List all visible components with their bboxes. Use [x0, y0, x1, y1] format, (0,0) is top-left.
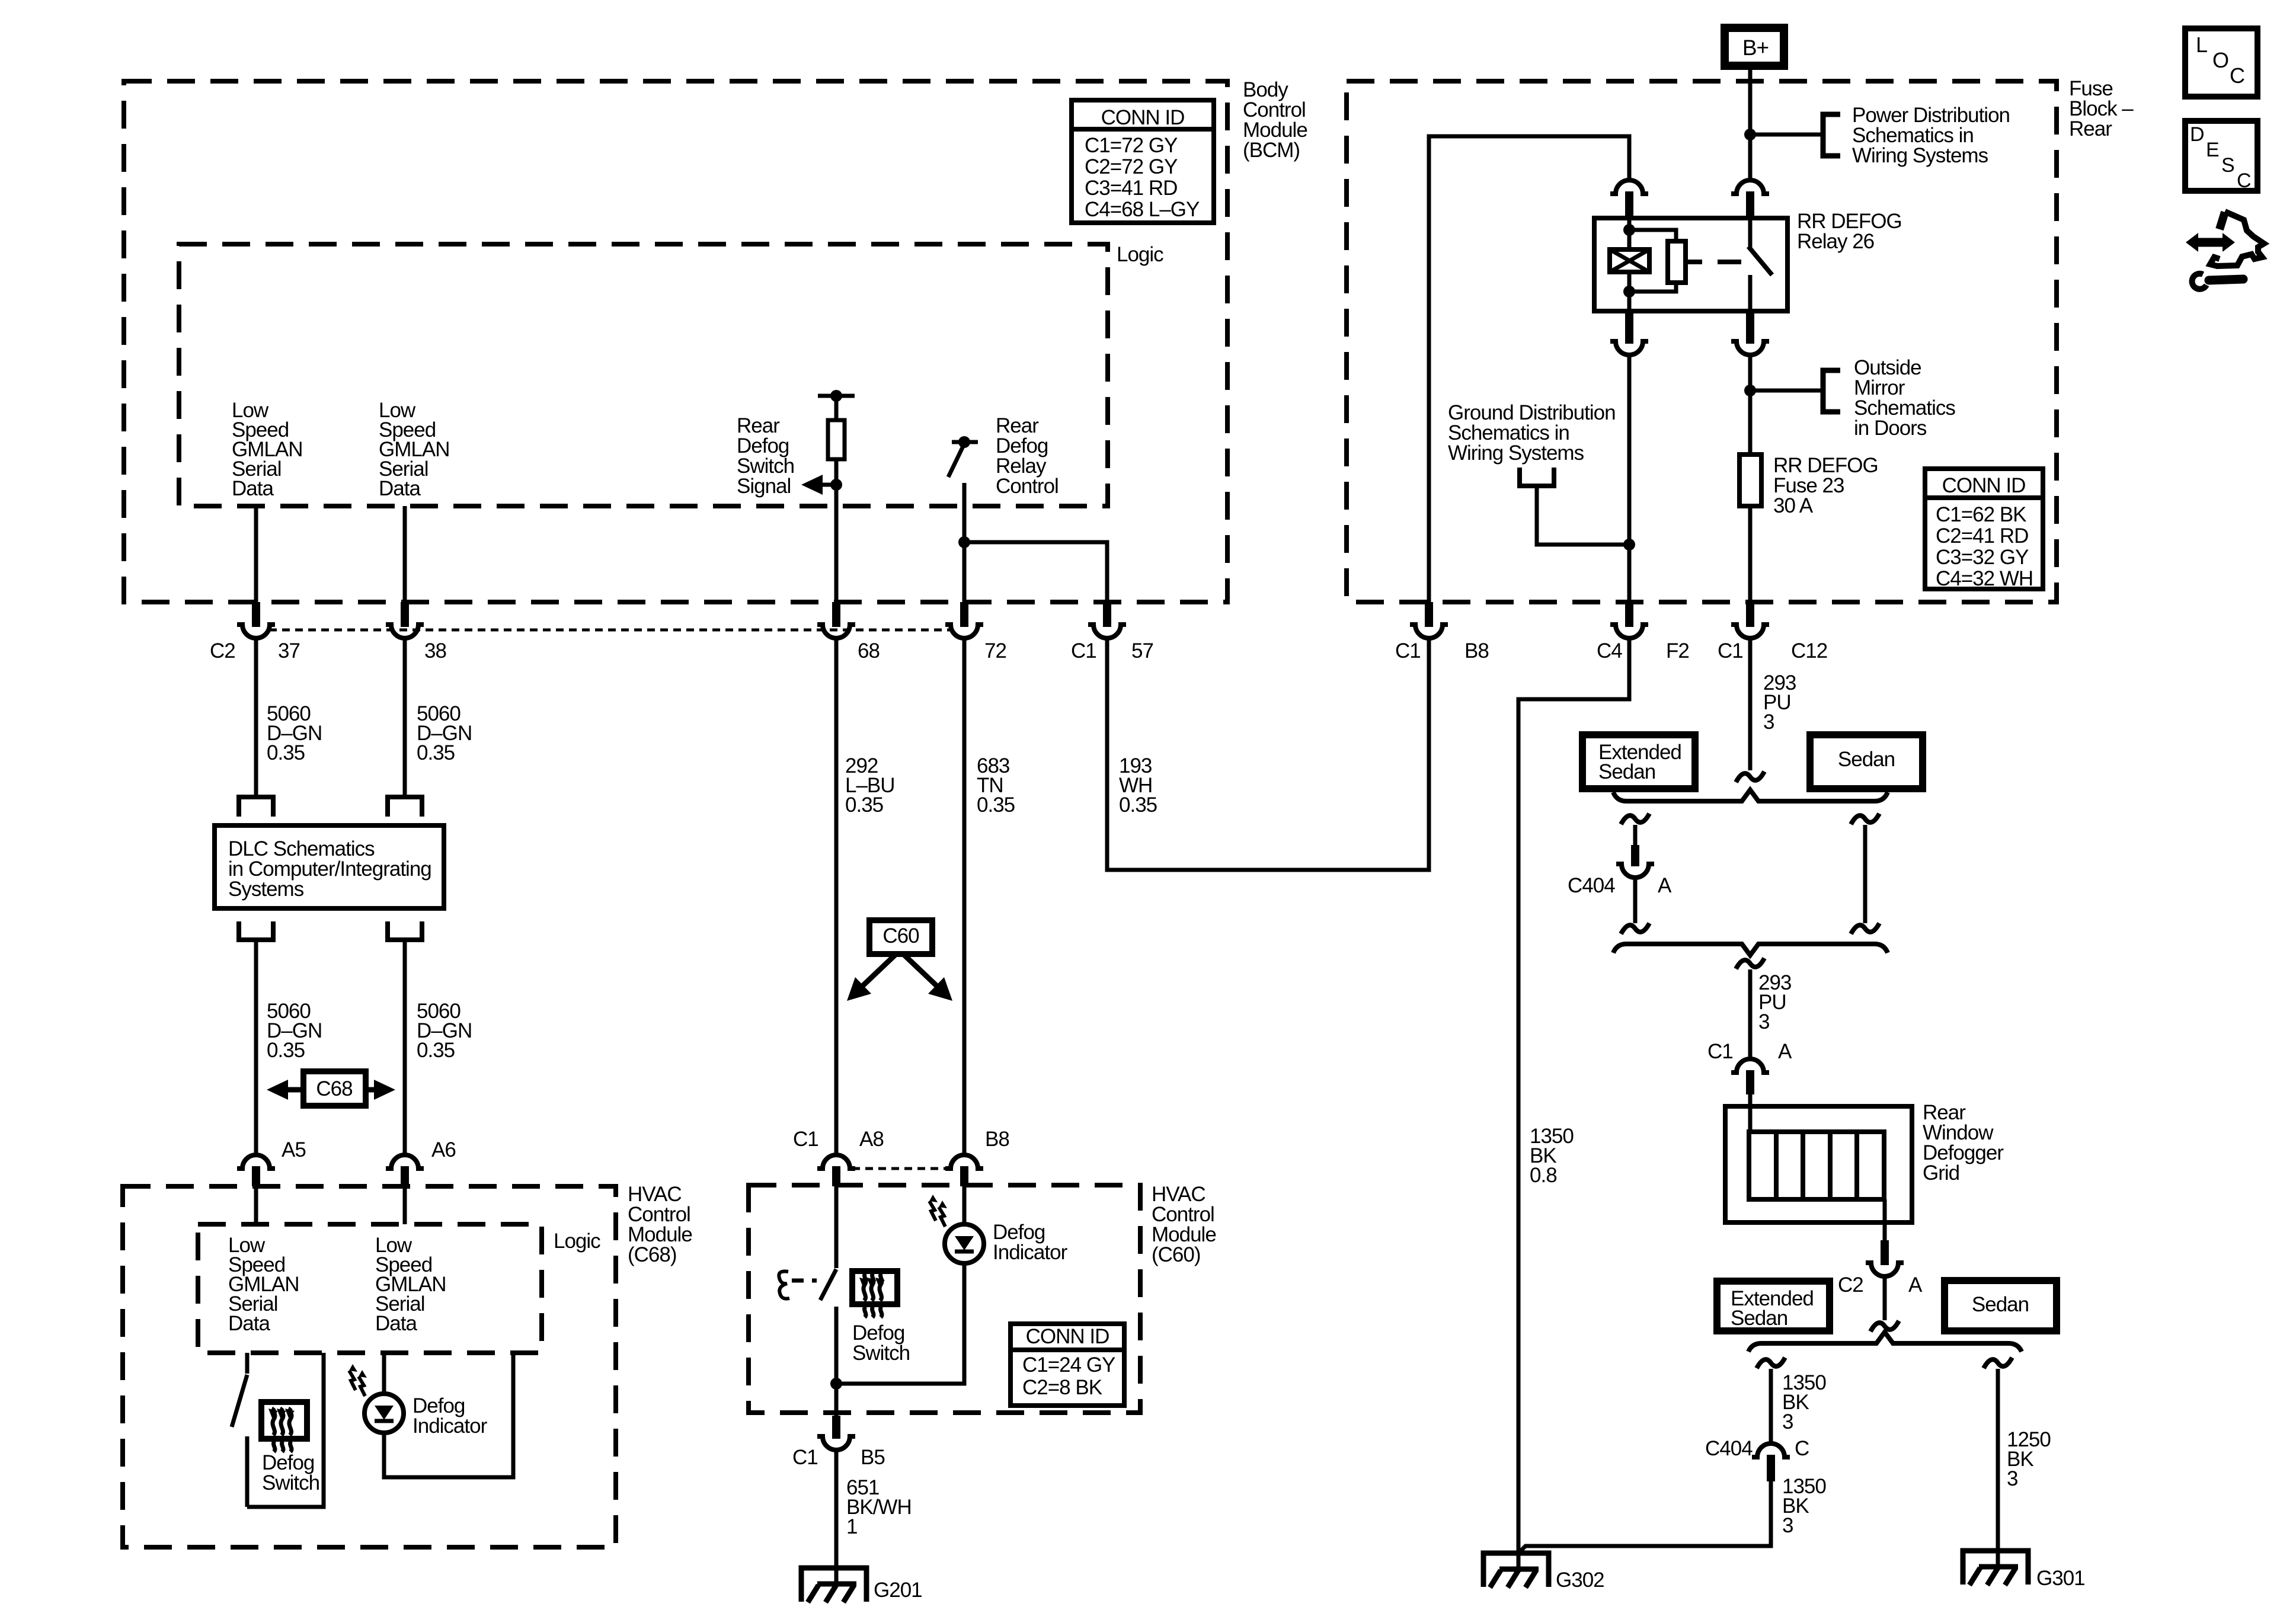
wire 293 PU 3 (C12 down)	[1748, 638, 1753, 770]
connector C4 pin F2 (fuse block)	[1625, 602, 1633, 627]
legend box: LOC	[2185, 28, 2257, 97]
wire 683 TN 0.35 (BCM 72 to HVAC B8)	[962, 638, 967, 1154]
svg-text:68: 68	[858, 639, 880, 662]
wire 1250 BK 3 (to G301)	[1996, 1369, 2000, 1567]
svg-text:C2=8 BK: C2=8 BK	[1022, 1376, 1102, 1399]
svg-text:0.35: 0.35	[977, 793, 1015, 817]
wire break hook (extended sedan branch bottom)	[1621, 923, 1649, 934]
CONN ID table (HVAC C60)	[1011, 1324, 1124, 1406]
connector A5 (HVAC C68)	[237, 1155, 275, 1169]
svg-text:G301: G301	[2036, 1567, 2085, 1590]
svg-text:B8: B8	[1464, 639, 1489, 662]
wire: relay coil feed (from B8 control wire)	[1429, 136, 1629, 602]
svg-text:Wiring Systems: Wiring Systems	[1448, 441, 1584, 465]
module box: Body Control Module (BCM), dashed outline	[124, 81, 1227, 602]
variant box: Sedan (upper)	[1810, 735, 1923, 789]
svg-text:S: S	[2221, 154, 2234, 177]
svg-text:0.35: 0.35	[417, 1039, 455, 1062]
svg-text:A8: A8	[859, 1128, 884, 1151]
svg-text:Sedan: Sedan	[1731, 1307, 1787, 1330]
arrow to B8 wire (C60)	[903, 954, 939, 988]
svg-text:3: 3	[1782, 1410, 1793, 1433]
wire: indicator to switch junction (C60)	[836, 1263, 964, 1384]
wire: junction pin 72 branch to pin 57	[958, 536, 970, 548]
power feed box: B+	[1725, 28, 1784, 66]
connector C1 pin B5 (HVAC C60)	[832, 1416, 840, 1439]
relay coil parallel element	[1629, 230, 1676, 241]
connector C404 pin A	[1631, 845, 1639, 866]
svg-text:Systems: Systems	[228, 878, 304, 901]
wire: C60 switch junction to pin B5	[834, 1384, 839, 1416]
svg-text:G302: G302	[1556, 1569, 1604, 1592]
terminal out of DLC box (left)	[239, 921, 273, 940]
wire: ground distribution branch	[1537, 486, 1629, 545]
wire: relay coil low side to C4 F2	[1627, 354, 1632, 602]
svg-text:1: 1	[846, 1515, 857, 1538]
wire: branch to power distribution reference	[1750, 133, 1823, 137]
svg-text:C404: C404	[1568, 874, 1615, 897]
connector C2 pin A (defogger grid)	[1881, 1240, 1889, 1265]
svg-text:57: 57	[1131, 639, 1153, 662]
svg-text:Relay 26: Relay 26	[1797, 230, 1874, 253]
wire: B8 pin to defog indicator (C60)	[962, 1186, 967, 1224]
svg-text:(C68): (C68)	[628, 1243, 677, 1266]
wire: resistor to BCM pin 68	[834, 459, 839, 602]
svg-text:C3=32 GY: C3=32 GY	[1936, 546, 2029, 569]
LED: Defog Indicator (C60)	[945, 1224, 984, 1263]
svg-text:in Doors: in Doors	[1854, 417, 1927, 440]
wire: C2 A to split brace	[1883, 1276, 1887, 1320]
svg-text:72: 72	[984, 639, 1006, 662]
connector C1 pin 57 (BCM)	[1103, 602, 1111, 627]
wire break hook (1350 BK branch)	[1757, 1358, 1785, 1368]
wire: C68 logic to defog indicator	[382, 1353, 386, 1394]
terminal: ground distribution reference	[1520, 468, 1554, 486]
wire: relay output to fuse	[1748, 354, 1753, 454]
legend box: DESC	[2185, 121, 2257, 191]
harness merge brace (upper)	[1613, 944, 1888, 955]
connector C2 pin 37 (BCM)	[252, 602, 260, 627]
terminal out of DLC box (right)	[388, 921, 422, 940]
svg-text:C1: C1	[793, 1128, 818, 1151]
relay RR DEFOG Relay 26 box	[1594, 218, 1787, 311]
connector C1 pin 72 (BCM)	[960, 602, 968, 627]
wire: sedan branch	[1863, 825, 1868, 923]
relay switch contact	[1748, 218, 1753, 248]
svg-text:A: A	[1908, 1273, 1923, 1297]
fuse: RR DEFOG Fuse 23 30 A	[1739, 454, 1761, 506]
wire: C68 logic to defog switch	[245, 1353, 250, 1374]
svg-text:A: A	[1658, 874, 1672, 897]
wire 1350 BK 3 (to C404 C)	[1769, 1369, 1773, 1444]
svg-text:38: 38	[424, 639, 446, 662]
logic box inside BCM, dashed	[179, 244, 1108, 506]
svg-text:C: C	[2237, 169, 2251, 192]
svg-text:0.8: 0.8	[1530, 1164, 1557, 1187]
svg-text:A6: A6	[431, 1138, 456, 1161]
variant box: Extended Sedan (lower)	[1717, 1281, 1830, 1331]
wire: BCM switch to pin 72	[962, 483, 967, 602]
svg-text:Sedan: Sedan	[1838, 748, 1895, 771]
wire: branch to outside mirror reference	[1750, 389, 1823, 393]
svg-text:C1: C1	[792, 1446, 818, 1469]
wire break hook (C12)	[1736, 772, 1764, 782]
svg-text:Control: Control	[996, 475, 1059, 498]
switch: Defog Switch (C60)	[820, 1269, 836, 1300]
svg-text:Logic: Logic	[554, 1230, 600, 1253]
wire: connector to grid	[1748, 1094, 1753, 1132]
svg-text:L: L	[2196, 33, 2207, 57]
off-page reference: Outside Mirror	[1823, 370, 1840, 412]
svg-text:Logic: Logic	[1117, 243, 1163, 266]
svg-text:0.35: 0.35	[267, 741, 305, 764]
svg-text:C1: C1	[1071, 639, 1096, 662]
off-page reference: Power Distribution	[1823, 114, 1840, 156]
module box: Fuse Block - Rear, dashed outline	[1347, 81, 2057, 602]
wire break hook (293 PU resume)	[1736, 958, 1764, 969]
wire: defog switch return loop (C68)	[247, 1353, 324, 1507]
relay top pin (coil side)	[1610, 180, 1648, 194]
svg-text:C2: C2	[1838, 1273, 1863, 1297]
svg-text:B5: B5	[861, 1446, 885, 1469]
switch: Defog Switch (C68)	[232, 1375, 247, 1427]
logic box inside HVAC C68, dashed	[198, 1224, 542, 1353]
svg-text:B+: B+	[1742, 36, 1769, 60]
wire 5060 D-GN 0.35 (DLC to HVAC A6)	[403, 940, 407, 1156]
wire 292 L-BU 0.35 (BCM 68 to HVAC A8)	[834, 638, 839, 1154]
CONN ID table (BCM)	[1072, 100, 1214, 223]
svg-text:C2=41 RD: C2=41 RD	[1936, 524, 2028, 548]
svg-text:C1: C1	[1718, 639, 1743, 662]
wire: A5 pin into C68 logic	[254, 1186, 258, 1224]
connector body line C2-C1 (dotted)	[269, 629, 951, 632]
svg-text:37: 37	[278, 639, 300, 662]
svg-text:(C60): (C60)	[1152, 1243, 1201, 1266]
svg-text:C404: C404	[1705, 1437, 1753, 1460]
svg-text:C1=24 GY: C1=24 GY	[1022, 1353, 1115, 1377]
connector C1 pin A8 (HVAC C60)	[817, 1155, 855, 1169]
harness split brace (upper)	[1613, 790, 1888, 801]
wire: extended sedan branch to C404 A	[1633, 825, 1638, 847]
wire break hook (1250 BK branch)	[1984, 1358, 2012, 1368]
svg-text:3: 3	[1758, 1010, 1769, 1033]
connector C1 pin B8 (HVAC C60)	[945, 1155, 983, 1169]
svg-text:Indicator: Indicator	[993, 1241, 1068, 1264]
relay actuator link (dashed)	[1686, 260, 1702, 264]
svg-text:A: A	[1778, 1040, 1792, 1063]
terminal into DLC box (right)	[388, 797, 422, 817]
LED: Defog Indicator (C68)	[364, 1394, 404, 1433]
connector A6 (HVAC C68)	[386, 1155, 424, 1169]
svg-text:Signal: Signal	[737, 475, 791, 498]
switch (BCM internal, relay driver)	[952, 440, 978, 444]
wire: BCM pin 37 lead	[254, 506, 258, 602]
svg-text:C4=32 WH: C4=32 WH	[1936, 567, 2033, 590]
svg-text:Data: Data	[228, 1312, 270, 1335]
svg-text:Sedan: Sedan	[1598, 760, 1655, 783]
wire break hook (extended sedan branch top)	[1621, 814, 1649, 824]
svg-text:C1: C1	[1707, 1040, 1733, 1063]
ground G201	[801, 1568, 866, 1602]
svg-text:3: 3	[2007, 1467, 2017, 1490]
svg-text:C2=72 GY: C2=72 GY	[1085, 155, 1178, 178]
svg-text:Switch: Switch	[262, 1471, 319, 1494]
svg-text:0.35: 0.35	[1119, 793, 1157, 817]
svg-text:C2: C2	[210, 639, 235, 662]
variant box: Sedan (lower)	[1945, 1281, 2057, 1331]
relay bottom pin (coil side)	[1625, 311, 1633, 344]
svg-text:C: C	[1795, 1437, 1809, 1460]
connector C1 pin B8 (fuse block)	[1425, 602, 1433, 627]
ground G301	[1963, 1551, 2028, 1585]
svg-text:0.35: 0.35	[845, 793, 883, 817]
svg-text:E: E	[2206, 139, 2219, 161]
connector C1 pin C12 (fuse block)	[1746, 602, 1754, 627]
wire 5060 D-GN 0.35 (pin 37 to DLC)	[254, 638, 258, 797]
svg-text:C68: C68	[316, 1077, 352, 1100]
wire: defog indicator return loop (C68)	[384, 1353, 513, 1477]
svg-text:Wiring Systems: Wiring Systems	[1852, 144, 1988, 167]
svg-text:CONN ID: CONN ID	[1026, 1325, 1109, 1348]
reference box: DLC Schematics in Computer/Integrating Systems	[215, 825, 444, 908]
component: Rear Window Defogger Grid	[1725, 1106, 1912, 1222]
svg-text:3: 3	[1782, 1514, 1793, 1537]
variant box: Extended Sedan (upper)	[1582, 735, 1695, 789]
wire 293 PU 3 (to C1 A)	[1748, 969, 1753, 1060]
svg-text:C4=68 L–GY: C4=68 L–GY	[1085, 198, 1200, 221]
svg-text:Data: Data	[379, 477, 421, 500]
svg-text:Rear: Rear	[2069, 117, 2112, 140]
wire break hook (sedan branch top)	[1851, 814, 1879, 824]
harness split brace (lower)	[1748, 1332, 2022, 1352]
terminal into DLC box (left)	[239, 797, 273, 817]
svg-text:Grid: Grid	[1923, 1161, 1959, 1185]
svg-text:A5: A5	[282, 1138, 306, 1161]
svg-text:3: 3	[1763, 710, 1774, 734]
svg-text:C3=41 RD: C3=41 RD	[1085, 177, 1177, 200]
wire break hook (sedan branch bottom)	[1851, 923, 1879, 934]
wire 651 BK/WH 1 to G201	[834, 1449, 839, 1583]
junction: ground distribution branch	[1623, 539, 1635, 550]
connector C1 pin 68 (BCM)	[832, 602, 840, 627]
arrow to A8 wire (C60)	[861, 954, 896, 988]
connector C2 pin 38 (BCM)	[401, 602, 409, 627]
svg-text:C1=72 GY: C1=72 GY	[1085, 134, 1178, 157]
wire break hook (grid ground lead)	[1870, 1321, 1899, 1331]
defrost heater icon (C60)	[852, 1271, 897, 1304]
wire 193 WH 0.35 (BCM 57 to fuse block B8)	[1107, 638, 1429, 870]
defrost heater icon (C68)	[261, 1402, 307, 1439]
resistor (BCM internal, switch signal pull-up)	[818, 394, 855, 398]
svg-text:D: D	[2190, 123, 2204, 146]
icon: vehicle datum with arrow and wrench	[2198, 238, 2223, 247]
wire: fuse to C1 C12	[1748, 506, 1753, 602]
svg-text:C60: C60	[882, 924, 919, 948]
wire 1350 BK 0.8 (F2 to G302)	[1518, 638, 1629, 1569]
wire: BCM pin 38 lead	[403, 506, 407, 602]
svg-text:F2: F2	[1666, 639, 1689, 662]
wire 5060 D-GN 0.35 (pin 38 to DLC)	[403, 638, 407, 797]
ground G302	[1483, 1553, 1549, 1587]
in-line connector C60 (box with arrows)	[869, 920, 932, 954]
svg-text:B8: B8	[985, 1128, 1009, 1151]
connector body line (dotted, C60)	[852, 1167, 948, 1170]
svg-text:30 A: 30 A	[1773, 494, 1814, 517]
wire 1350 BK 3 (C404 C to G302)	[1518, 1481, 1771, 1553]
relay bottom pin (switch output)	[1746, 311, 1754, 344]
mechanical link to switch (dashed)	[792, 1279, 817, 1283]
module box: HVAC Control Module (C60), dashed outline	[749, 1185, 1140, 1413]
svg-text:Sedan: Sedan	[1972, 1293, 2029, 1316]
svg-text:C12: C12	[1791, 639, 1827, 662]
relay top pin (switch side B+)	[1731, 180, 1769, 194]
svg-text:(BCM): (BCM)	[1243, 139, 1300, 162]
arrow: rear defog switch signal (to logic)	[823, 483, 836, 487]
svg-text:C4: C4	[1597, 639, 1622, 662]
svg-text:CONN ID: CONN ID	[1101, 106, 1185, 129]
svg-text:G201: G201	[874, 1579, 922, 1602]
relay coil	[1627, 218, 1632, 249]
wire 5060 D-GN 0.35 (DLC to HVAC A5)	[254, 940, 258, 1156]
wire: grid output down to C2 A	[1883, 1199, 1887, 1243]
svg-text:O: O	[2212, 48, 2228, 72]
wire: C404 A to merge brace	[1633, 877, 1638, 923]
svg-text:Switch: Switch	[852, 1342, 910, 1365]
module box: HVAC Control Module (C68), dashed outline	[123, 1186, 616, 1547]
connector C404 pin C	[1752, 1443, 1790, 1457]
svg-text:Data: Data	[232, 477, 274, 500]
wire: B+ feed into fuse block	[1748, 68, 1753, 180]
connector C1 pin A (defogger grid)	[1731, 1059, 1769, 1073]
svg-text:0.35: 0.35	[417, 741, 455, 764]
svg-text:0.35: 0.35	[267, 1039, 305, 1062]
wire: A8 pin to defog switch (C60)	[834, 1186, 839, 1268]
wire: A6 pin into C68 logic	[403, 1186, 407, 1224]
CONN ID table (Fuse Block)	[1925, 469, 2043, 589]
svg-text:CONN ID: CONN ID	[1942, 474, 2026, 497]
svg-text:Data: Data	[375, 1312, 417, 1335]
svg-text:Indicator: Indicator	[412, 1414, 488, 1438]
svg-text:C1: C1	[1395, 639, 1421, 662]
in-line connector C68 (double arrow)	[303, 1071, 366, 1106]
svg-text:C: C	[2230, 63, 2244, 88]
svg-text:C1=62 BK: C1=62 BK	[1936, 503, 2026, 526]
